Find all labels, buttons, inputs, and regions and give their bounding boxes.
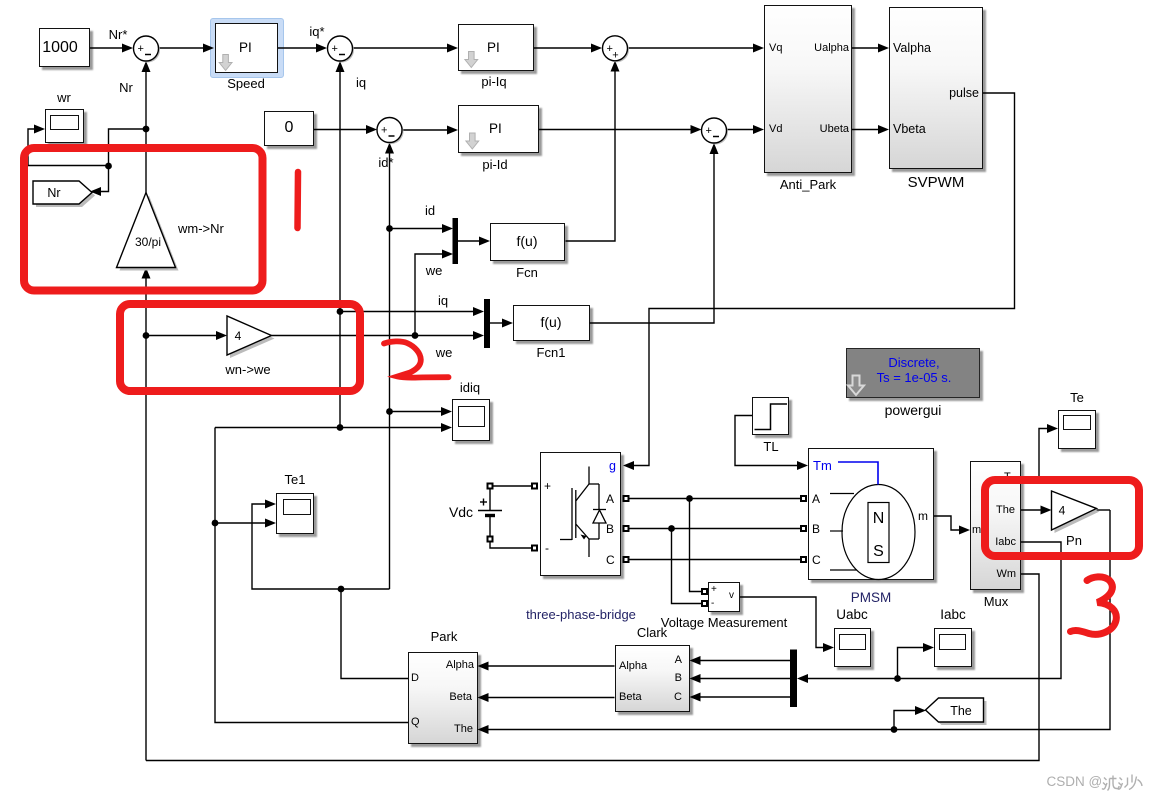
arrowhead into scope wr (34, 125, 45, 134)
wire Wm vertical to 30/pi (145, 277, 147, 761)
arrowhead id into sum minus (385, 143, 394, 154)
wire Mux Iabc to demux (806, 542, 1061, 679)
red annotation digit 2 (384, 341, 449, 377)
pad bridge A output (623, 495, 630, 502)
constant block 1000 (Nr* reference) (39, 28, 90, 67)
arrowhead into scope Te1 in1 (265, 500, 276, 509)
wire iq feedback vertical (339, 70, 341, 428)
scope wr (45, 109, 84, 143)
constant block 0 (id* reference) (264, 111, 314, 146)
scope Te1 (276, 493, 314, 534)
wire gain4 out (we) to mux2 (272, 335, 476, 337)
junction node Iabc branch (894, 675, 901, 682)
arrowhead iq into sum minus (336, 61, 345, 72)
port label The of Park transform block (mirrored) (454, 724, 473, 735)
PMSM motor glyph (830, 485, 915, 580)
junction node iq to mux2 (337, 308, 344, 315)
port label C of PMSM machine block (812, 554, 821, 566)
step block TL (752, 397, 789, 435)
arrowhead into goto The (915, 706, 926, 715)
port label Q of Park transform block (mirrored) (411, 717, 420, 728)
arrowhead into SVPWM Vbeta (878, 125, 889, 134)
wire pulse to bridge g (632, 93, 1015, 466)
PI controller pi-Id (458, 105, 539, 153)
junction node Wm to gain wn-we (143, 332, 150, 339)
pad PMSM C input (800, 556, 807, 563)
arrowhead Nr into sum minus (142, 61, 151, 72)
port label + of three-phase-bridge block (544, 480, 551, 492)
arrowhead id into mux1 (442, 224, 453, 233)
Clark transform block (mirrored) (615, 645, 690, 712)
wire Speed to sum2 (278, 47, 318, 49)
svg-text:+: + (138, 43, 144, 55)
arrowhead into SVPWM Valpha (878, 44, 889, 53)
arrowhead into scope Te (1047, 424, 1058, 433)
wire PMSM m to Mux (934, 516, 961, 530)
wire branch to Iabc scope (898, 648, 926, 679)
wire sum4 to Anti_Park Vq (628, 47, 756, 49)
red annotation box 3 (985, 480, 1139, 556)
port label Iabc of Mux (machine measurement demux) block (995, 537, 1016, 548)
wire Mux The to Pn (1021, 509, 1043, 511)
junction node id to mux1 (386, 225, 393, 232)
junction node The branch (891, 726, 898, 733)
Fcn block f(u) (490, 223, 566, 262)
wire VM to Uabc scope (740, 597, 825, 648)
port label Vbeta of subsystem SVPWM (893, 123, 926, 136)
arrowhead into sum Vq plus (611, 61, 620, 72)
pad battery + (487, 483, 494, 490)
port label Beta of Park transform block (mirrored) (449, 692, 472, 703)
wire Mux Te to Te scope (1021, 429, 1049, 478)
pad VM + input (701, 588, 708, 595)
port label A of PMSM machine block (812, 493, 820, 505)
sum junction Vd (702, 118, 729, 145)
junction node Park Q to Te1 (212, 520, 219, 527)
pad bridge C output (623, 556, 630, 563)
mux bar 2 (iq,we) (484, 299, 490, 348)
port label B of three-phase-bridge block (606, 523, 614, 535)
arrowhead into Anti_Park Vq (753, 44, 764, 53)
subsystem Anti_Park (764, 5, 852, 174)
watermark CJK glyphs (1102, 775, 1142, 791)
junction node we branch (412, 332, 419, 339)
wire Park D feedback (341, 589, 408, 679)
arrowhead into gain 30/pi (142, 268, 151, 279)
wire A to VM + (690, 499, 702, 592)
arrowhead into Anti_Park Vd (753, 125, 764, 134)
arrowhead into Park The (478, 725, 489, 734)
arrowhead into Clark B (690, 674, 701, 683)
demux bar (abc) (790, 650, 797, 708)
wire pi-Iq to sum4 (534, 47, 593, 49)
svg-text:S: S (873, 543, 884, 560)
scope idiq (452, 399, 490, 441)
wire id branch to idiq (390, 411, 444, 413)
svg-text:+: + (612, 50, 618, 62)
port label Alpha of Clark transform block (mirrored) (619, 661, 647, 672)
gray arrow icon Speed (219, 55, 232, 71)
arrowhead into PI pi-Id (447, 126, 458, 135)
arrowhead into scope Iabc (923, 643, 934, 652)
signal label Nr* (109, 28, 128, 41)
junction node Nr to wr and goto (105, 163, 112, 170)
pad VM - input (701, 600, 708, 607)
arrowhead into sum Vd minus (710, 143, 719, 154)
svg-text:The: The (950, 704, 972, 718)
arrowhead into bridge g (623, 461, 634, 470)
red annotation box 2 (120, 304, 360, 391)
wire 0 to sum3 (314, 129, 368, 131)
sum junction Nr (134, 36, 161, 63)
watermark CSDN (1047, 775, 1103, 789)
wire we to mux1 (415, 254, 444, 336)
port label + of Voltage Measurement block (711, 585, 717, 595)
port label C of Clark transform block (mirrored) (674, 692, 682, 703)
signal label iq (middle) (438, 294, 448, 307)
wire Ualpha to Valpha (852, 47, 880, 49)
sum junction iq (328, 36, 355, 63)
port label Wm of Mux (machine measurement demux) block (996, 569, 1016, 580)
wire id feedback vertical (389, 152, 391, 590)
wire iq/Te1 line to idiq (215, 427, 443, 429)
junction node Park D feedback (338, 586, 345, 593)
Voltage Measurement block (708, 582, 741, 612)
port label A of three-phase-bridge block (606, 493, 614, 505)
arrowhead into scope Uabc (823, 643, 834, 652)
wire sum2 to pi-Iq (353, 47, 450, 49)
junction node phase A tap (686, 495, 693, 502)
gain 4 (wn->we) (227, 316, 275, 358)
wire Clark Alpha to Park (487, 665, 615, 667)
mux bar 1 (id,we) (453, 218, 459, 264)
wire mux1 to Fcn (458, 240, 481, 242)
arrowhead into scope Te1 in2 (265, 519, 276, 528)
PI controller Speed (215, 23, 278, 73)
arrowhead into PMSM Tm (797, 461, 808, 470)
gray arrow icon powergui (848, 376, 864, 396)
pad bridge + input (531, 483, 538, 490)
PMSM Tm blue wire (838, 462, 878, 485)
arrowhead into Park Beta (478, 693, 489, 702)
gain 4 (Pn) (1052, 491, 1100, 533)
pad battery - (487, 536, 494, 543)
svg-text:N: N (873, 510, 885, 527)
scope Iabc (934, 628, 972, 667)
signal label Nr (119, 81, 133, 94)
arrowhead into Fcn (479, 237, 490, 246)
arrowhead into PI Speed (203, 44, 214, 53)
PI controller pi-Iq (458, 24, 534, 71)
wire Nr branch to wr and goto (109, 129, 147, 166)
label Vdc (449, 505, 473, 519)
port label - of three-phase-bridge block (545, 542, 549, 554)
Fcn1 block f(u) (513, 305, 590, 342)
arrowhead into sum iq (316, 44, 327, 53)
wire B to VM - (672, 529, 702, 604)
arrowhead into sum Vq (591, 44, 602, 53)
sum junction Vq (603, 36, 630, 63)
red annotation box 1 (24, 148, 263, 291)
pad bridge B output (623, 525, 630, 532)
sum junction id (377, 118, 404, 145)
port label m of PMSM machine block (918, 510, 928, 522)
subsystem SVPWM (889, 7, 983, 169)
port label Vd of subsystem Anti_Park (769, 124, 782, 135)
port label g of three-phase-bridge block (609, 460, 616, 473)
three-phase-bridge block (540, 452, 622, 577)
signal label id (425, 204, 435, 217)
arrowhead into Fcn1 (502, 319, 513, 328)
port label m of Mux (machine measurement demux) block (972, 525, 981, 536)
gain label wn->we (225, 363, 270, 376)
wire Nr feedback vertical (145, 70, 147, 193)
signal label we (upper) (426, 264, 443, 277)
PI controller U:Speed highlight (210, 18, 284, 78)
wire Fcn to sum4 (566, 70, 616, 242)
arrowhead into Clark C (690, 693, 701, 702)
arrowhead we into mux1 (442, 250, 453, 259)
IGBT glyph inside bridge (560, 467, 606, 558)
arrowhead into demux bar (797, 674, 808, 683)
wire Clark Beta to Park (487, 697, 615, 699)
arrowhead into Mux m (959, 526, 970, 535)
wire sum1 to Speed (159, 47, 206, 49)
wire demux to Clark C (699, 696, 791, 698)
port label v of Voltage Measurement block (729, 591, 734, 601)
port label Beta of Clark transform block (mirrored) (619, 692, 642, 703)
Park transform block (mirrored) (408, 652, 478, 745)
red annotation digit 3 (1071, 577, 1117, 634)
arrowhead into Park Alpha (478, 662, 489, 671)
arrowhead we into mux2 (473, 331, 484, 340)
port label Vq of subsystem Anti_Park (769, 43, 782, 54)
battery Vdc symbol (478, 486, 531, 548)
svg-text:+: + (332, 43, 338, 55)
pad PMSM B input (800, 525, 807, 532)
gray arrow icon pi-Id (466, 133, 479, 149)
svg-text:30/pi: 30/pi (135, 235, 161, 249)
junction node phase B tap (668, 525, 675, 532)
port label The of Mux (machine measurement demux) block (996, 505, 1015, 516)
port label Ualpha of subsystem Anti_Park (814, 43, 849, 54)
port label - of Voltage Measurement block (711, 599, 714, 609)
wire bridge B to PMSM B (629, 528, 800, 530)
port label D of Park transform block (mirrored) (411, 673, 419, 684)
IGBT emitter arrow (581, 535, 587, 540)
port label Ubeta of subsystem Anti_Park (820, 124, 849, 135)
svg-text:+: + (706, 125, 712, 137)
port label Tm of PMSM machine block (813, 459, 832, 472)
wire gain4 input (146, 335, 218, 337)
signal label iq* (309, 25, 324, 38)
Mux (machine measurement demux) block (970, 461, 1021, 590)
wire Pn output (1097, 509, 1111, 511)
wire id to mux1 (390, 228, 445, 230)
goto tag The (926, 698, 987, 725)
wire Mux Wm feedback (146, 574, 1039, 761)
signal label iq (top) (356, 76, 366, 89)
wire bridge C to PMSM C (629, 559, 800, 561)
gain 30/pi (wm->Nr) (117, 193, 179, 271)
powergui block (846, 348, 980, 398)
pad PMSM A input (800, 495, 807, 502)
scope Te (1058, 410, 1096, 449)
wire bridge A to PMSM A (629, 498, 800, 500)
port label B of PMSM machine block (812, 523, 820, 535)
wire sum3 to pi-Id (402, 129, 449, 131)
svg-text:Nr: Nr (47, 186, 60, 200)
junction node Nr branch (143, 126, 150, 133)
junction node iq feedback corner (337, 424, 344, 431)
port label B of Clark transform block (mirrored) (675, 673, 682, 684)
gray arrow icon pi-Iq (465, 52, 478, 68)
port label T of Mux (machine measurement demux) block (1004, 472, 1011, 483)
wire sum5 to Anti_Park Vd (727, 129, 756, 131)
wire 1000 to sum1 (90, 47, 124, 49)
arrowhead into scope idiq in1 (441, 407, 452, 416)
wire mux2 to Fcn1 (490, 322, 504, 324)
port label Alpha of Park transform block (mirrored) (446, 660, 474, 671)
wire Fcn1 to sum5 (590, 152, 715, 323)
port label C of three-phase-bridge block (606, 554, 615, 566)
arrowhead into sum Vd (691, 125, 702, 134)
junction node id to idiq (386, 408, 393, 415)
arrowhead into gain wn-we (216, 331, 227, 340)
wire Te1 top input (252, 504, 390, 589)
arrowhead into scope idiq in2 (441, 423, 452, 432)
PMSM machine block (808, 448, 934, 580)
wire Park Q feedback (215, 428, 408, 723)
wire iq to mux2 (340, 311, 475, 313)
signal label we (lower) (436, 346, 453, 359)
arrowhead into sum id (366, 125, 377, 134)
arrowhead into goto Nr (90, 187, 101, 196)
arrowhead into Clark A (690, 656, 701, 665)
port label pulse of subsystem SVPWM (949, 87, 979, 100)
svg-text:+: + (381, 125, 387, 137)
signal label id* (378, 156, 393, 169)
goto tag Nr (33, 181, 95, 207)
arrowhead into PI pi-Iq (447, 44, 458, 53)
step glyph inside TL (755, 404, 788, 430)
wire TL to PMSM Tm (735, 416, 799, 466)
wire demux to Clark B (699, 678, 791, 680)
svg-text:4: 4 (1059, 504, 1066, 518)
arrowhead into gain Pn (1041, 506, 1052, 515)
arrowhead into sum Nr (122, 44, 133, 53)
wire Ubeta to Vbeta (852, 129, 880, 131)
scope Uabc (834, 628, 871, 667)
gain label wm->Nr (178, 222, 224, 235)
gain label Pn (1066, 534, 1082, 547)
wire The to Park (487, 510, 1111, 730)
wire Te1 bottom input (215, 522, 267, 524)
port label A of Clark transform block (mirrored) (675, 655, 682, 666)
red annotation digit 1 (294, 172, 301, 228)
wire demux to Clark A (699, 660, 791, 662)
arrowhead iq into mux2 (473, 307, 484, 316)
svg-text:4: 4 (235, 329, 242, 343)
wire branch to goto The (894, 711, 917, 730)
wire pi-Id to sum5 (539, 129, 693, 131)
port label Valpha of subsystem SVPWM (893, 42, 931, 55)
pad bridge - input (531, 545, 538, 552)
